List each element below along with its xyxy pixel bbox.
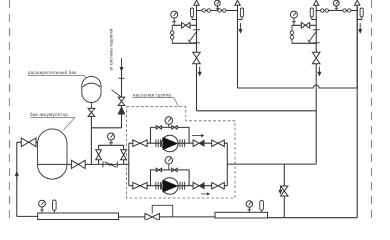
- svg-text:насосная группа: насосная группа: [133, 92, 171, 97]
- svg-text:от системы подпитки: от системы подпитки: [108, 28, 113, 70]
- svg-text:расширительный бак: расширительный бак: [28, 70, 77, 75]
- svg-text:бак-аккумулятор: бак-аккумулятор: [30, 112, 68, 117]
